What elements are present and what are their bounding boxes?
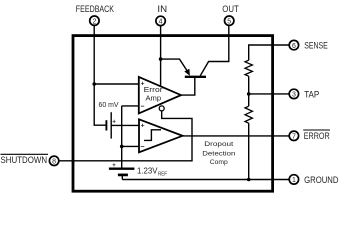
wire error amp - input from VREF line [122, 105, 139, 107]
svg-text:−: − [140, 103, 144, 110]
resistor R1 zigzag [245, 60, 252, 76]
wire OUT pin to transistor collector [200, 25, 229, 75]
wire ERROR comparator output [183, 135, 290, 137]
svg-text:6: 6 [292, 43, 296, 50]
battery B1 60mV short plate [105, 120, 107, 130]
wire ground rail [122, 179, 289, 181]
IC body box [73, 36, 273, 192]
transistor Q1 emitter wire with arrow [161, 59, 189, 73]
svg-text:SHUTDOWN: SHUTDOWN [1, 155, 48, 165]
svg-text:+: + [112, 119, 116, 125]
wire battery bottom to ground rail [121, 176, 123, 180]
battery B2 1.23V top plate (long) [109, 168, 134, 170]
svg-text:GROUND: GROUND [304, 175, 339, 186]
op-amp U1 shutdown bubble [159, 106, 164, 111]
resistor divider top wire from SENSE [249, 45, 289, 60]
pin 7 circle [289, 131, 298, 140]
pin 6 circle [289, 40, 298, 49]
wire TAP [249, 93, 289, 95]
svg-text:ERROR: ERROR [304, 131, 330, 142]
svg-text:+: + [112, 163, 116, 169]
wire error amp + input [94, 83, 139, 85]
svg-text:3: 3 [292, 92, 296, 99]
battery B1 60mV long plate [110, 112, 112, 138]
comparator U2 hysteresis symbol [144, 130, 161, 141]
wire FEEDBACK pin to node [94, 25, 106, 125]
wire between resistors [248, 76, 250, 106]
wire comparator - input from VREF node [122, 145, 139, 147]
node TAP junction dot [247, 92, 251, 96]
battery B2 1.23V bottom plate (short) [118, 174, 128, 177]
node VREF junction dot [120, 145, 124, 149]
wire IN pin down to error amp supply [160, 26, 162, 87]
svg-text:REF: REF [158, 171, 167, 177]
node FEEDBACK junction dot [92, 82, 96, 86]
wire SHUTDOWN to error amp bubble [59, 111, 192, 161]
svg-text:OUT: OUT [222, 4, 239, 15]
pin 3 circle [289, 89, 298, 98]
pin 2 circle [90, 16, 99, 25]
pin 8 circle [49, 156, 58, 165]
node ground junction dot [247, 178, 251, 182]
svg-text:TAP: TAP [304, 89, 319, 100]
pin 1 circle [289, 175, 298, 184]
svg-text:Comp: Comp [210, 159, 228, 166]
svg-text:Dropout: Dropout [204, 141, 233, 148]
svg-text:2: 2 [92, 18, 96, 25]
svg-text:1.23V: 1.23V [137, 166, 158, 175]
resistor R2 zigzag [245, 106, 252, 123]
transistor Q1 base bar [185, 76, 206, 78]
svg-text:Detection: Detection [202, 150, 235, 157]
node IN junction dot [159, 57, 163, 61]
svg-text:8: 8 [52, 159, 56, 166]
transistor Q1 emitter arrowhead [184, 69, 190, 76]
svg-text:FEEDBACK: FEEDBACK [76, 4, 115, 15]
svg-text:+: + [141, 123, 145, 130]
pin 4 circle [156, 16, 165, 25]
svg-text:−: − [140, 144, 144, 151]
svg-text:SENSE: SENSE [304, 41, 328, 52]
svg-text:IN: IN [157, 4, 167, 15]
comparator U2 dropout detection triangle [139, 119, 183, 152]
svg-text:7: 7 [292, 134, 296, 141]
transistor Q1 base lead to error amp output [181, 77, 195, 95]
wire VREF vertical [121, 106, 123, 169]
op-amp U1 error amplifier triangle [139, 77, 181, 114]
pin 5 circle [225, 16, 234, 25]
svg-text:Amp: Amp [146, 93, 162, 102]
svg-text:60 mV: 60 mV [99, 100, 119, 109]
svg-text:4: 4 [159, 19, 163, 26]
svg-text:1: 1 [292, 177, 296, 184]
wire R2 bottom to ground rail [248, 123, 250, 179]
svg-text:5: 5 [227, 18, 231, 25]
wire 60mV battery to comparator + input [111, 124, 139, 126]
